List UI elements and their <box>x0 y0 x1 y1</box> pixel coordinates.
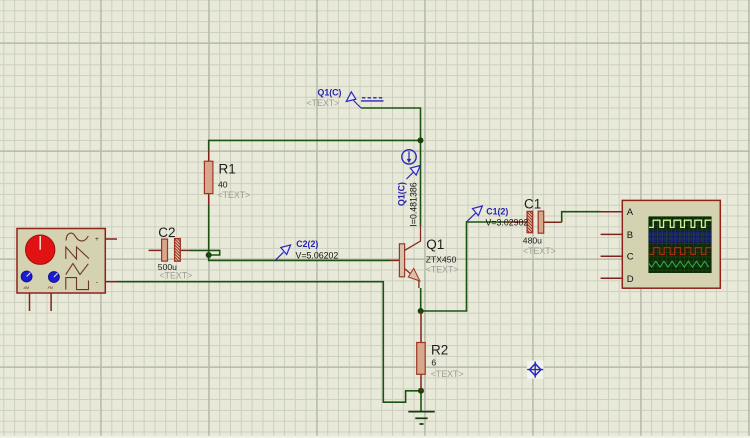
svg-text:A: A <box>627 207 634 218</box>
pin - stub <box>105 281 117 283</box>
svg-text:V=3.02902: V=3.02902 <box>486 217 529 227</box>
scope trace D (green triangle) <box>649 261 709 267</box>
wire W4a hook from C2 to base node <box>190 250 220 255</box>
waveform glyph sawtooth <box>66 247 89 259</box>
waveform glyph triangle <box>66 264 89 275</box>
svg-text:-: - <box>96 279 98 286</box>
ground <box>408 412 434 424</box>
red knob <box>26 235 55 264</box>
svg-text:C: C <box>627 252 634 263</box>
svg-text:<TEXT>: <TEXT> <box>431 369 464 379</box>
node junction dot emitter node <box>418 308 424 314</box>
svg-text:Q1(C): Q1(C) <box>397 182 407 206</box>
current probe Q1(C) on collector <box>397 150 421 227</box>
blue knob FM <box>49 272 60 283</box>
svg-text:C1(2): C1(2) <box>486 206 508 216</box>
svg-text:I=0.481386: I=0.481386 <box>409 182 419 226</box>
svg-text:<TEXT>: <TEXT> <box>523 246 556 256</box>
svg-text:<TEXT>: <TEXT> <box>426 264 459 274</box>
node junction dot R2 bottom node <box>418 388 424 394</box>
wire W9 R2 bottom to ground <box>420 391 422 411</box>
resistor R1 <box>204 150 250 255</box>
svg-text:6: 6 <box>431 358 436 368</box>
svg-text:R1: R1 <box>219 162 236 177</box>
scope pin C <box>601 255 623 257</box>
wire W7 C1 to oscilloscope A <box>562 212 601 223</box>
scope screen <box>649 217 712 273</box>
wire W4b base node to Q1 base <box>209 255 390 260</box>
scope pin A <box>601 211 623 213</box>
scope pin D <box>601 277 623 279</box>
scope trace C (red square) <box>649 248 711 255</box>
wire W8 bottom return from generator to R2 junction <box>117 282 421 403</box>
svg-text:R2: R2 <box>431 343 448 358</box>
scope pin B <box>601 233 623 235</box>
wire W6 emitter junction right and up to C1 <box>421 222 508 311</box>
wire W5 emitter down to junction <box>420 288 422 311</box>
svg-text:Q1(C): Q1(C) <box>318 87 342 97</box>
origin marker <box>527 361 544 379</box>
svg-text:FM: FM <box>48 286 53 290</box>
svg-text:ZTX450: ZTX450 <box>426 255 457 265</box>
blue knob AM <box>21 271 32 282</box>
bottom pin stub 2 <box>50 293 52 311</box>
voltage probe Q1(C) top <box>307 87 384 108</box>
svg-text:D: D <box>627 274 634 285</box>
bottom window edge strip <box>0 436 750 438</box>
wire W2 probe stub top <box>361 108 421 140</box>
svg-text:+: + <box>95 236 99 243</box>
svg-text:V=5.06202: V=5.06202 <box>296 250 339 260</box>
capacitor C1 <box>508 196 562 256</box>
scope trace A (green square) <box>649 220 711 227</box>
svg-text:<TEXT>: <TEXT> <box>218 190 251 200</box>
svg-text:C2(2): C2(2) <box>296 239 318 249</box>
svg-text:<TEXT>: <TEXT> <box>307 98 340 108</box>
svg-text:480u: 480u <box>523 236 542 246</box>
wire W3 collector vertical <box>420 140 422 226</box>
bottom pin stub 1 <box>29 293 31 311</box>
waveform glyph square <box>66 278 89 290</box>
voltage probe C2(2) <box>275 239 339 261</box>
node junction dot base node <box>206 252 212 258</box>
svg-text:B: B <box>627 230 633 241</box>
knob labels <box>23 286 53 290</box>
transistor Q1 <box>390 226 459 288</box>
svg-text:C1: C1 <box>524 196 541 211</box>
resistor R2 <box>417 311 464 391</box>
svg-text:Q1: Q1 <box>426 237 444 252</box>
svg-text:<TEXT>: <TEXT> <box>160 270 193 280</box>
oscilloscope <box>601 200 721 288</box>
scope trace B (blue) <box>649 232 711 242</box>
node junction dot collector node <box>418 137 424 143</box>
pin + stub <box>105 238 117 240</box>
signal generator G1 <box>17 229 117 312</box>
svg-text:40: 40 <box>218 180 228 190</box>
capacitor C2 <box>149 225 193 280</box>
waveform glyph sine <box>66 233 88 241</box>
svg-text:AM: AM <box>23 286 29 290</box>
voltage probe C1(2) <box>467 206 529 227</box>
wire W1 top: R1 top to collector junction <box>209 140 421 150</box>
svg-text:C2: C2 <box>158 225 175 240</box>
